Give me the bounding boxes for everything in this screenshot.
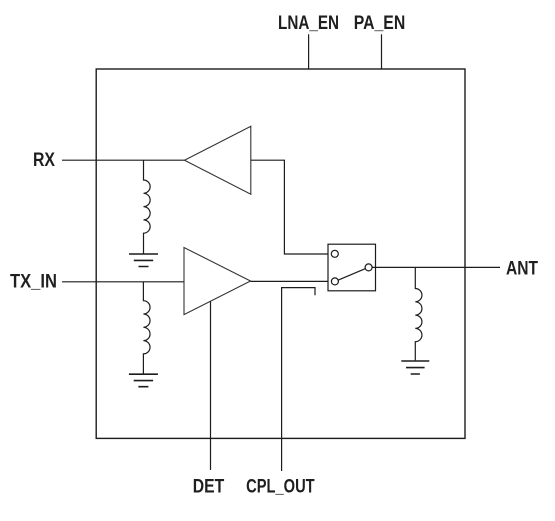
pin label TX_IN bbox=[10, 271, 57, 292]
svg-text:DET: DET bbox=[193, 477, 225, 498]
svg-text:PA_EN: PA_EN bbox=[354, 13, 406, 34]
switch SW1 pole RX (top-left) bbox=[331, 250, 338, 257]
svg-text:CPL_OUT: CPL_OUT bbox=[246, 477, 315, 498]
svg-text:LNA_EN: LNA_EN bbox=[278, 13, 339, 34]
pin label ANT bbox=[506, 258, 538, 279]
wire ANT output bbox=[372, 266, 500, 268]
pin label CPL_OUT bbox=[246, 477, 315, 498]
wire DET (from PA to DET pin) bbox=[210, 301, 212, 470]
svg-text:ANT: ANT bbox=[506, 258, 538, 279]
inductor L1 (RX shunt) bbox=[144, 160, 151, 253]
coupler CPL (coupled line) and wire CPL_OUT bbox=[282, 288, 315, 471]
switch SW1 pole TX (bottom-left) bbox=[331, 278, 338, 285]
svg-text:TX_IN: TX_IN bbox=[10, 271, 57, 292]
wire TX input bbox=[62, 281, 184, 283]
pin label LNA_EN bbox=[278, 13, 339, 34]
switch SW1 (SPDT) body bbox=[328, 244, 376, 291]
ground (L3) bbox=[401, 361, 429, 374]
switch SW1 pole ANT (right) bbox=[365, 264, 372, 271]
ground (L2) bbox=[129, 374, 158, 387]
wire PA output to switch bbox=[251, 280, 332, 282]
ground (L1) bbox=[129, 254, 158, 267]
inductor L2 (TX shunt) bbox=[143, 282, 150, 374]
switch SW1 arm (TX to ANT) bbox=[338, 269, 365, 280]
pin label RX bbox=[33, 150, 55, 171]
op-amp PA (amplifier, points right) bbox=[184, 248, 251, 315]
wire LNA output to switch bbox=[251, 160, 331, 254]
pin label DET bbox=[193, 477, 225, 498]
IC package outline bbox=[96, 69, 465, 438]
inductor L3 (ANT shunt) bbox=[415, 267, 422, 360]
op-amp LNA (amplifier, points left) bbox=[185, 126, 251, 194]
pin LNA_EN wire bbox=[308, 34, 310, 69]
svg-text:RX: RX bbox=[33, 150, 55, 171]
pin label PA_EN bbox=[354, 13, 406, 34]
pin PA_EN wire bbox=[381, 34, 383, 69]
wire RX input bbox=[62, 159, 185, 161]
